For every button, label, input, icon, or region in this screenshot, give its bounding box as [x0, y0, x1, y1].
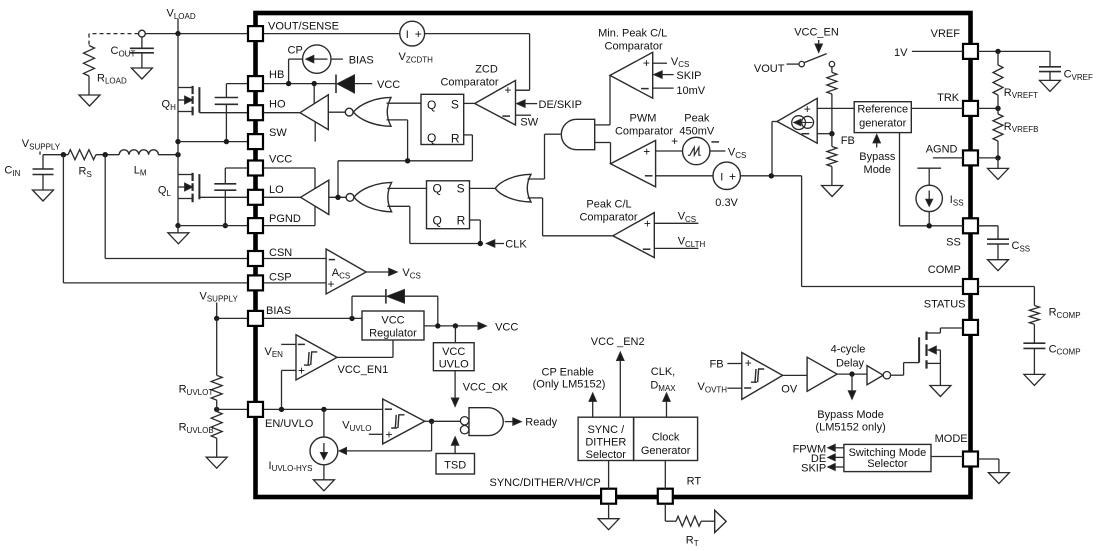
ground MODE [988, 473, 1009, 484]
wire latch2 S from OR gate [470, 187, 495, 189]
pin LO [248, 184, 284, 205]
wire PWM plus to ramp source [656, 150, 683, 152]
gate NOR low-side [346, 182, 392, 211]
net label VEN [265, 344, 297, 359]
svg-text:Generator: Generator [641, 445, 691, 457]
wire reference to SS [900, 133, 964, 226]
net label FPWM [793, 443, 844, 455]
node EN divider [214, 407, 219, 412]
svg-text:Bypass Mode: Bypass Mode [817, 409, 884, 421]
node PGND cap [223, 223, 228, 228]
svg-text:MODE: MODE [935, 433, 968, 445]
svg-text:S: S [451, 98, 459, 112]
transistor status switch [919, 328, 963, 386]
wire OR bottom input from PeakCL [528, 198, 613, 236]
net label VLOAD [167, 8, 196, 34]
wire feedback rail [338, 160, 472, 162]
svg-text:10mV: 10mV [676, 85, 705, 97]
comparator VCC_EN1 [296, 335, 337, 380]
svg-text:Peak C/L: Peak C/L [586, 198, 631, 210]
node VREF divider [995, 49, 1000, 54]
svg-text:HB: HB [269, 69, 284, 81]
svg-text:DITHER: DITHER [585, 436, 626, 448]
gate AND ready [460, 408, 503, 436]
wire AGND stub [933, 157, 963, 159]
wire AND bottom input from PWM comp [595, 143, 611, 164]
svg-text:R: R [451, 131, 460, 145]
node VLOAD junction [175, 31, 180, 36]
block TSD [436, 454, 475, 475]
capacitor CIN [4, 155, 53, 190]
wire CSN to ACS [264, 258, 327, 260]
net label VSUPPLY bias [200, 290, 239, 318]
ground CIN [33, 190, 54, 201]
wire CSP sense route [63, 155, 247, 283]
svg-text:CLK: CLK [505, 238, 527, 250]
wire NOR2 bottom input from CLK [387, 206, 410, 243]
node EN hys branch [321, 407, 326, 412]
wire inverter to status gate [891, 363, 920, 376]
wire HB external [226, 83, 247, 85]
gate NOR high-side [345, 97, 391, 126]
wire divider to EN pin [217, 400, 248, 411]
resistor RT [676, 516, 701, 548]
svg-text:Q: Q [433, 213, 442, 227]
node BIAS supply [214, 316, 219, 321]
net label 10mV [653, 85, 706, 97]
wire rail to LO node [337, 161, 339, 198]
comparator ZCD [475, 80, 516, 125]
resistor FB top [827, 67, 837, 134]
transistor QH [162, 86, 200, 115]
node EN plus branch [279, 407, 284, 412]
resistor RCOMP [1029, 306, 1080, 325]
net label CP Enable [533, 366, 606, 417]
svg-text:TSD: TSD [444, 460, 466, 472]
pin TRK [937, 92, 978, 116]
wire HO pin to driver [264, 112, 301, 114]
wire VOUT/SENSE internal [264, 33, 400, 35]
wire dashed to RLOAD [89, 34, 139, 46]
net label VSUPPLY [22, 138, 61, 155]
transistor QL [158, 173, 200, 202]
capacitor CCOMP [1023, 324, 1080, 374]
current source CP [288, 45, 331, 74]
svg-text:+: + [671, 134, 678, 148]
node BIAS diode branch [349, 316, 354, 321]
net label 1V VREF [894, 47, 963, 59]
wire VCC to LO driver top [264, 168, 316, 189]
node feedback rail [405, 158, 410, 163]
svg-text:SW: SW [520, 116, 538, 128]
pin COMP [928, 264, 978, 294]
ground IUVLO-HYS [313, 480, 334, 491]
wire SW to HO driver bottom [314, 122, 316, 142]
comparator Min Peak C/L [610, 52, 653, 98]
buffer LO driver [301, 180, 329, 214]
svg-text:VREF: VREF [931, 28, 961, 40]
svg-text:DE/SKIP: DE/SKIP [539, 99, 582, 111]
svg-text:Selector: Selector [867, 458, 908, 470]
svg-text:1V: 1V [894, 47, 908, 59]
svg-text:VCC: VCC [269, 153, 292, 165]
svg-text:+: + [643, 144, 650, 158]
svg-text:AGND: AGND [926, 144, 958, 156]
svg-text:Q: Q [427, 98, 436, 112]
svg-text:VCC: VCC [495, 321, 518, 333]
wire HB internal [264, 83, 337, 85]
svg-text:Regulator: Regulator [369, 327, 417, 339]
wire delay to inverter [837, 373, 867, 375]
buffer 4-cycle delay [807, 357, 837, 391]
wire OV to delay buffer [783, 374, 808, 376]
capacitor COUT [111, 37, 154, 68]
pin EN/UVLO [248, 402, 314, 430]
resistor RS [68, 150, 96, 179]
node VCC uvlo branch [453, 323, 458, 328]
svg-text:Peak: Peak [684, 113, 710, 125]
block Switching Mode Selector [844, 444, 931, 471]
resistor RUVLOT [179, 375, 223, 400]
capacitor CVREF [1039, 51, 1093, 82]
ground power stage [168, 226, 189, 244]
svg-text:Min. Peak C/L: Min. Peak C/L [598, 28, 667, 40]
net label CLK DMAX [650, 366, 676, 417]
capacitor VCC-PGND [214, 168, 236, 226]
ground CSS [988, 260, 1009, 271]
gate AND pwm [561, 119, 594, 149]
net label DE mode [811, 453, 844, 465]
switch VCC_EN [799, 54, 835, 67]
pin SYNC/DITHER/VH/CP [490, 477, 617, 504]
wire VLOAD rail [145, 33, 248, 35]
pin SW [248, 127, 287, 149]
pin HB [248, 69, 284, 91]
wire HB to HO driver top [313, 84, 315, 104]
latch SR high-side U1 [421, 94, 464, 145]
net label VCC_EN2 [591, 336, 645, 417]
svg-text:+: + [644, 217, 651, 231]
wire TSD to AND [451, 437, 459, 454]
wire TRK to reference [911, 107, 963, 109]
ground CVREF [1040, 80, 1061, 91]
svg-text:VCC: VCC [381, 314, 404, 326]
svg-text:0.3V: 0.3V [715, 197, 738, 209]
wire VCC_EN1 output to regulator [337, 340, 393, 357]
svg-text:VCC_EN: VCC_EN [794, 26, 839, 38]
node FB [829, 131, 855, 147]
pin CSP [248, 272, 292, 291]
svg-text:PWM: PWM [630, 113, 657, 125]
wire MODE external [978, 459, 999, 473]
wire latch2 R to CLK [470, 220, 481, 244]
label VZCDTH [399, 51, 434, 64]
svg-text:generator: generator [859, 118, 906, 130]
svg-text:CSP: CSP [269, 272, 292, 284]
wire supply to RUVLOT [216, 318, 218, 375]
net label SW into ZCD minus [516, 115, 539, 128]
svg-text:+: + [504, 83, 511, 97]
latch SR low-side U2 [427, 181, 470, 229]
terminal VOUT open circle [139, 30, 146, 37]
wire CP to HB node [289, 59, 303, 84]
block VCC UVLO [433, 343, 474, 371]
svg-text:RT: RT [687, 476, 702, 488]
svg-text:OV: OV [781, 384, 798, 396]
pin HO [248, 98, 286, 120]
svg-text:VOUT/SENSE: VOUT/SENSE [268, 21, 339, 33]
wire RUVLOB to ground [216, 438, 218, 457]
wire AGND external [978, 157, 998, 159]
node ISS at SS [927, 223, 932, 228]
svg-text:VOUT: VOUT [754, 63, 785, 75]
comparator Peak C/L [613, 213, 654, 258]
wire latch1 S from ZCD [464, 102, 475, 104]
node bypass branch [849, 371, 854, 376]
wire error amp minus to FB [817, 133, 832, 135]
current source VZCDTH [400, 21, 425, 46]
svg-text:UVLO: UVLO [439, 359, 469, 371]
wire VCC rail out [424, 325, 479, 327]
node VCC diode [435, 323, 440, 328]
wire VEN plus from EN node [282, 370, 297, 409]
wire UVLO output to AND [432, 420, 461, 422]
wire NOR1 bottom input [387, 120, 408, 161]
wire CSN sense route [105, 155, 248, 259]
comparator OV [742, 353, 783, 400]
wire TRK external [978, 107, 998, 109]
svg-text:450mV: 450mV [679, 126, 715, 138]
IC boundary LM5152 [256, 13, 971, 497]
svg-text:+: + [643, 56, 650, 70]
wire VREF external [978, 50, 1050, 52]
svg-text:Comparator: Comparator [440, 76, 498, 88]
wire CLK rail [410, 243, 481, 245]
capacitor bootstrap HB-SW [215, 84, 238, 142]
pin SS [946, 218, 978, 248]
svg-text:TRK: TRK [937, 92, 960, 104]
svg-text:VCC: VCC [442, 346, 465, 358]
net label VCS ramp [710, 146, 746, 159]
net label SKIP [654, 70, 702, 82]
svg-text:FB: FB [710, 359, 724, 371]
current source ISS [916, 168, 964, 226]
wire COMP routing [802, 176, 963, 287]
net label DE/SKIP into ZCD [517, 99, 582, 111]
node TRK divider [995, 106, 1000, 111]
net label VCC_EN switch [794, 26, 839, 52]
net label VCS output [366, 267, 421, 280]
svg-text:SS: SS [946, 237, 961, 249]
gate OR set [495, 174, 531, 202]
wire VSUPPLY rail [43, 154, 68, 156]
svg-text:BIAS: BIAS [266, 305, 291, 317]
wire OR top input from AND [528, 134, 561, 179]
svg-text:I: I [406, 29, 409, 41]
svg-text:+: + [804, 102, 811, 116]
net label CLK [486, 238, 527, 250]
wire RT external [665, 504, 676, 522]
net label VCC_OK [451, 371, 508, 407]
svg-text:+: + [415, 27, 422, 41]
ground CCOMP [1024, 374, 1045, 385]
svg-text:4-cycle: 4-cycle [831, 344, 866, 356]
svg-text:VCC _EN2: VCC _EN2 [591, 336, 645, 348]
svg-text:SYNC /: SYNC / [587, 424, 625, 436]
block VCC Regulator [362, 311, 424, 340]
wire LM to SW node [158, 154, 178, 156]
wire LO driver input [329, 196, 346, 198]
node bootstrap at SW [224, 139, 229, 144]
pin PGND [248, 213, 301, 233]
svg-text:Ready: Ready [525, 416, 557, 428]
ground RLOAD [79, 95, 100, 106]
pin MODE [935, 433, 978, 467]
wire BIAS external [217, 317, 248, 319]
wire NOR2 top input from latch2 Q [387, 187, 426, 189]
node PGND column [175, 223, 180, 228]
svg-text:SW: SW [269, 127, 287, 139]
svg-text:+: + [729, 169, 736, 183]
svg-text:Mode: Mode [864, 164, 892, 176]
node CLK [478, 241, 483, 246]
net label VCS PeakCL [654, 210, 698, 223]
svg-text:PGND: PGND [269, 213, 301, 225]
svg-text:COMP: COMP [928, 264, 961, 276]
svg-text:SKIP: SKIP [676, 70, 701, 82]
op-amp ACS [326, 249, 366, 294]
pin RT [658, 476, 702, 504]
svg-text:Selector: Selector [586, 449, 627, 461]
wire NOR1 top input from latch Q [387, 102, 422, 104]
net label Bypass Mode arrow [859, 134, 896, 175]
net label VOUT [754, 63, 799, 75]
net label Bypass Mode LM5152 [815, 374, 885, 434]
svg-text:ZCD: ZCD [475, 64, 498, 76]
wire VCC to UVLO block [454, 326, 456, 343]
pin CSN [248, 247, 292, 266]
svg-text:STATUS: STATUS [924, 298, 966, 310]
net label VUVLO [342, 420, 382, 435]
source ramp generator [671, 134, 719, 165]
diode bootstrap charge D2 [352, 289, 438, 326]
svg-text:CLK,: CLK, [651, 366, 675, 378]
svg-text:CSN: CSN [269, 247, 292, 259]
wire CP to BIAS label [331, 54, 374, 66]
pin VOUT/SENSE [248, 21, 339, 42]
svg-text:Bypass: Bypass [859, 151, 896, 163]
ground SYNC pin [598, 504, 619, 530]
svg-text:(LM5152 only): (LM5152 only) [815, 422, 885, 434]
svg-text:+: + [745, 356, 752, 370]
node AGND divider [995, 155, 1000, 160]
capacitor CSS [978, 226, 1030, 260]
net label Ready [505, 416, 558, 428]
wire VZCDTH to ZCD comparator [425, 34, 530, 91]
wire EN/UVLO internal [264, 408, 383, 410]
pin STATUS [924, 298, 978, 335]
net label VOVTH [698, 381, 742, 394]
resistor RLOAD [84, 46, 127, 86]
pin VREF [931, 28, 978, 59]
wire power column [177, 34, 179, 226]
wire hysteresis feedback [339, 421, 432, 454]
comparator PWM [611, 140, 656, 187]
svg-text:VCC_OK: VCC_OK [463, 381, 509, 393]
ground FB divider [822, 186, 843, 197]
svg-text:Comparator: Comparator [605, 40, 663, 52]
block SYNC DITHER Selector [578, 417, 634, 461]
wire SW to pin [178, 141, 248, 143]
net label VCLTH [654, 236, 705, 249]
svg-text:BIAS: BIAS [349, 54, 374, 66]
wire CSP to ACS [264, 282, 327, 284]
svg-text:+: + [385, 428, 392, 442]
svg-text:SYNC/DITHER/VH/CP: SYNC/DITHER/VH/CP [490, 477, 601, 489]
ground RUVLOB [206, 457, 227, 468]
net label VCC rail [478, 321, 518, 333]
wire selector to MODE pin [931, 456, 963, 458]
wire QL gate to LO [199, 196, 247, 198]
svg-text:R: R [457, 213, 466, 227]
wire QH gate to HO [199, 112, 247, 114]
wire error amp plus to reference [817, 107, 854, 109]
comparator VUVLO [383, 399, 425, 444]
pin VCC [248, 153, 292, 175]
net label SKIP mode [801, 463, 844, 475]
svg-text:EN/UVLO: EN/UVLO [265, 418, 314, 430]
wire PWM minus to offset source [656, 175, 713, 177]
ground AGND divider [988, 158, 1009, 180]
resistor RVREFB [993, 108, 1038, 157]
node CSN sense [103, 152, 108, 157]
resistor RVREFT [993, 51, 1038, 108]
svg-text:Clock: Clock [652, 431, 680, 443]
svg-text:Reference: Reference [857, 103, 908, 115]
current source 0.3V offset [713, 162, 740, 209]
svg-text:CP Enable: CP Enable [542, 366, 594, 378]
svg-text:FB: FB [841, 135, 855, 147]
svg-text:VCC_EN1: VCC_EN1 [338, 364, 389, 376]
node LO feedback [335, 195, 340, 200]
pin AGND [926, 144, 978, 166]
wire AND top input from MinPeak [595, 75, 610, 125]
node SW power [175, 152, 180, 157]
svg-text:Comparator: Comparator [615, 125, 673, 137]
node UVLO output [425, 419, 435, 424]
svg-text:SKIP: SKIP [801, 463, 826, 475]
wire PGND to LO driver bottom [264, 206, 316, 226]
buffer HO driver [300, 95, 328, 130]
node SW wire junction [175, 139, 180, 144]
node COMP summing [769, 173, 774, 178]
resistor RUVLOB [179, 412, 223, 439]
terminal clock input triangle [715, 510, 727, 532]
svg-text:Q: Q [433, 182, 442, 196]
ground COUT [131, 68, 152, 79]
svg-text:I: I [720, 171, 723, 183]
net label VCS MinPeak [653, 56, 690, 69]
wire VCC external [225, 167, 248, 169]
wire HO driver input [328, 111, 345, 113]
node CSP sense [61, 152, 66, 157]
wire offset to COMP node [740, 175, 801, 177]
diode HB from VCC [336, 75, 400, 94]
svg-text:S: S [457, 181, 465, 195]
block Clock Generator [634, 417, 698, 460]
wire SYNC box to pin [608, 461, 610, 490]
wire RS to LM [96, 154, 119, 156]
